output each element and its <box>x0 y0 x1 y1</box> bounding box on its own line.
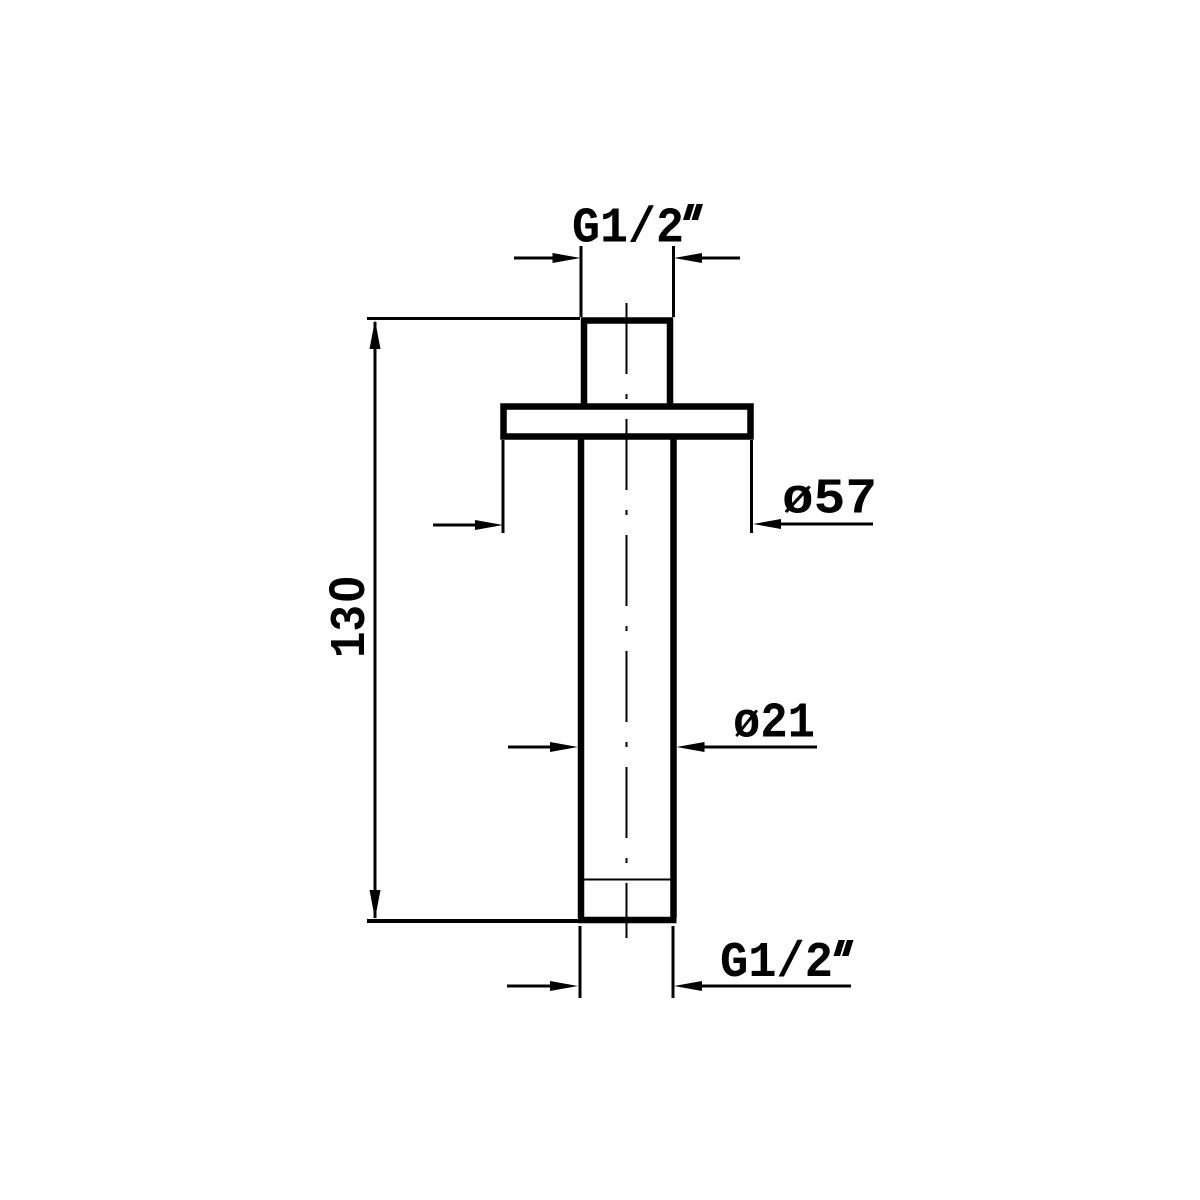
dia57 left arrow line <box>433 524 477 527</box>
dia57 right arrowhead <box>753 519 781 529</box>
svg-text:ø57: ø57 <box>782 472 877 529</box>
svg-text:0: 0 <box>319 576 375 603</box>
top G1/2 left arrow line <box>514 257 554 260</box>
130 dimension line <box>374 322 377 918</box>
bottom G1/2 left arrow line <box>507 985 552 988</box>
svg-text:13: 13 <box>323 605 380 658</box>
centerline (vertical dash-dot axis) <box>626 303 628 938</box>
bottom G1/2 inch marks <box>834 940 846 956</box>
top G1/2 inch marks <box>683 204 695 220</box>
flange (ceiling plate) outline <box>504 407 751 437</box>
svg-text:G1/2: G1/2 <box>720 935 833 992</box>
dia57 extension line right <box>750 440 753 533</box>
svg-text:ø21: ø21 <box>733 696 815 753</box>
130 dimension top extension line <box>367 317 580 320</box>
bottom thread boundary thin line <box>584 879 671 881</box>
dia57 extension line left <box>502 440 505 533</box>
dia57 left arrowhead <box>475 520 503 530</box>
bottom G1/2 extension line left <box>579 926 582 998</box>
bottom G1/2 extension line right <box>672 926 675 998</box>
130 dimension bottom extension line <box>367 919 580 923</box>
dia21 right arrow line <box>703 746 818 749</box>
pipe bottom edge <box>578 917 677 924</box>
bottom G1/2 right arrowhead <box>674 981 702 991</box>
tube body below flange (left and right walls) <box>581 437 674 918</box>
top G1/2 dimension extension line right <box>672 246 675 317</box>
dia57 right arrow line <box>779 523 873 526</box>
top G1/2 right arrow line <box>700 257 740 260</box>
dia21 left arrow line <box>508 746 552 749</box>
top G1/2 dimension extension line left <box>580 246 583 317</box>
svg-text:G1/2: G1/2 <box>572 201 684 258</box>
130 bottom arrowhead <box>370 890 381 919</box>
top G1/2 left arrowhead <box>553 253 581 263</box>
bottom G1/2 left arrowhead <box>550 981 578 991</box>
130 top arrowhead <box>370 320 381 349</box>
dia21 right arrowhead <box>677 742 705 752</box>
top G1/2 right arrowhead <box>674 253 702 263</box>
pipe top thread section outline <box>584 321 670 407</box>
dia21 left arrowhead <box>550 742 578 752</box>
bottom G1/2 right arrow line <box>700 985 851 988</box>
